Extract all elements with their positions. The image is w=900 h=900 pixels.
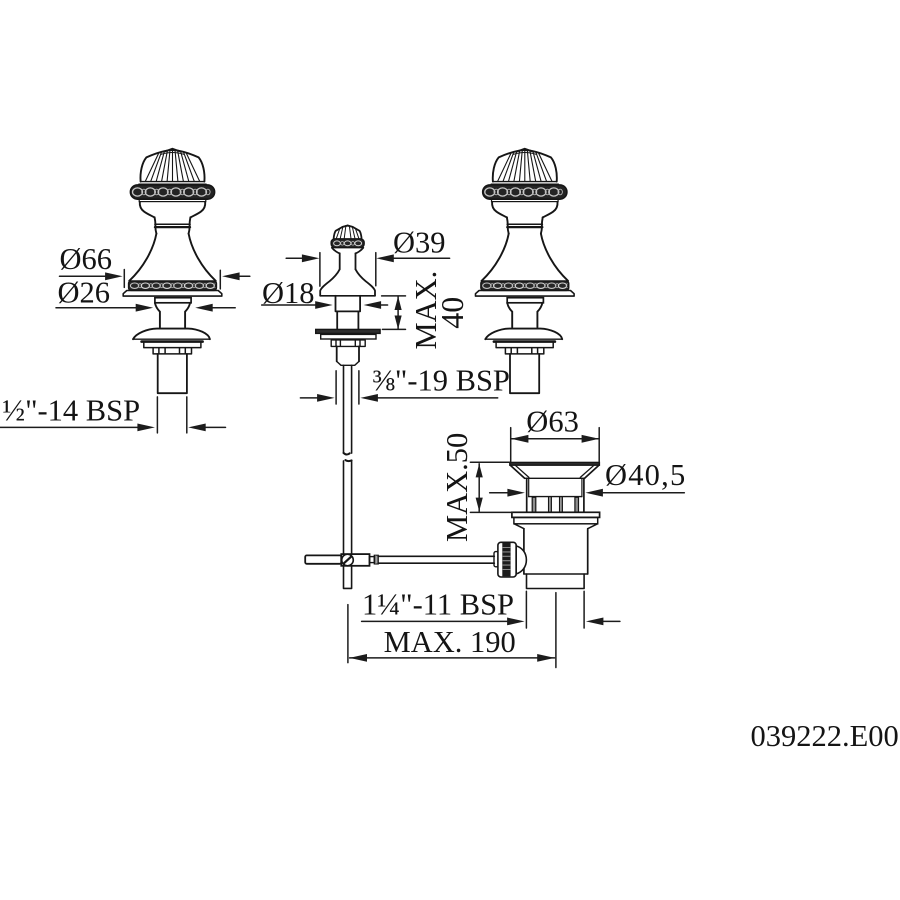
svg-text:Ø26: Ø26: [58, 275, 111, 309]
inner grid: [529, 496, 582, 498]
top plate (dark): [316, 329, 380, 333]
svg-text:MAX.50: MAX.50: [440, 433, 474, 542]
trumpet skirt: [320, 269, 340, 295]
pop-up knob fluted dome: [334, 226, 362, 239]
pop-up knob beaded band: [331, 239, 364, 248]
right tap handle: [476, 149, 575, 394]
dim Ø66 line and arrows: [60, 275, 109, 277]
hex nut facets: [331, 340, 365, 347]
dim MAX. 190: [347, 605, 349, 663]
svg-text:MAX. 190: MAX. 190: [384, 625, 516, 659]
extension lines below drain: [526, 591, 584, 667]
connector neck: [370, 557, 375, 563]
dim MAX.50: [470, 462, 512, 512]
dim MAX. 40: [382, 296, 406, 330]
lift rod lower segment: [344, 461, 352, 554]
left tap handle: [123, 149, 222, 394]
svg-text:40: 40: [434, 297, 470, 329]
clamp screw: [342, 554, 354, 566]
flange plate 2: [514, 517, 598, 523]
knurled coupling collar: [494, 552, 498, 567]
dim Ø18: [262, 304, 318, 306]
flange plate 1: [512, 512, 600, 517]
second plate: [321, 334, 376, 339]
svg-text:1¼"-11 BSP: 1¼"-11 BSP: [362, 587, 514, 621]
cylinder walls: [527, 478, 584, 512]
svg-text:⅜"-19 BSP: ⅜"-19 BSP: [372, 364, 510, 398]
knob bottom curve: [332, 248, 340, 254]
svg-text:Ø18: Ø18: [262, 276, 315, 310]
lower cylinder: [337, 311, 358, 329]
body chamfers: [514, 524, 597, 529]
coupling dome cap: [516, 546, 526, 574]
dim 1/2-14 BSP: [0, 426, 140, 428]
svg-text:½"-14 BSP: ½"-14 BSP: [2, 394, 140, 428]
dim Ø40,5: [490, 492, 510, 494]
funnel walls: [510, 465, 524, 478]
rod below clamp: [344, 566, 352, 588]
connector ridged piece: [374, 555, 378, 564]
svg-text:Ø63: Ø63: [526, 405, 579, 439]
knob stem: [340, 253, 356, 269]
rod break marks: [344, 453, 350, 455]
dim Ø26 line and arrows: [56, 307, 139, 309]
dim Ø39: [286, 257, 305, 259]
lift rod upper segment: [344, 365, 352, 453]
lever arm left: [305, 555, 341, 563]
dim 3/8-19 BSP: [300, 397, 319, 399]
svg-text:039222.E00: 039222.E00: [751, 719, 899, 753]
knurled barrel: [498, 542, 516, 577]
body walls: [524, 529, 588, 574]
collar: [336, 296, 361, 312]
tailpipe: [527, 574, 585, 589]
funnel top edge: [510, 462, 600, 465]
svg-text:Ø40,5: Ø40,5: [605, 458, 686, 492]
svg-text:Ø39: Ø39: [393, 226, 446, 260]
horizontal rod to drain: [378, 556, 494, 563]
clamp block: [341, 554, 369, 566]
dim Ø63: [511, 428, 600, 462]
threaded shank: [337, 346, 359, 361]
dim 1 1/4-11 BSP: [362, 620, 510, 622]
svg-text:Ø66: Ø66: [60, 242, 113, 276]
